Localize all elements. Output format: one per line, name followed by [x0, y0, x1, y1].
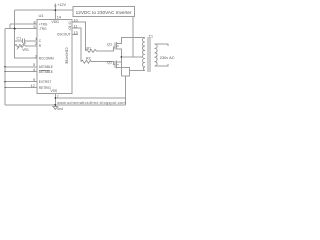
- svg-text:+12V: +12V: [57, 3, 66, 7]
- svg-text:www.schematics4free.blogspot.c: www.schematics4free.blogspot.com: [57, 100, 126, 105]
- svg-text:T1: T1: [149, 34, 153, 38]
- svg-text:RCCOMM: RCCOMM: [39, 56, 54, 60]
- svg-text:10: 10: [74, 18, 78, 22]
- svg-text:VDD: VDD: [51, 20, 59, 24]
- svg-text:Q1: Q1: [107, 43, 112, 47]
- svg-text:VR1: VR1: [22, 48, 29, 52]
- svg-text:Q2: Q2: [107, 60, 112, 64]
- svg-text:VSS: VSS: [50, 89, 58, 93]
- svg-text:11: 11: [74, 25, 78, 29]
- svg-text:ASTABLE: ASTABLE: [39, 65, 53, 69]
- svg-text:5: 5: [33, 63, 35, 67]
- svg-text:7: 7: [57, 95, 59, 99]
- svg-text:R1: R1: [87, 47, 92, 51]
- svg-text:230v AC: 230v AC: [160, 55, 175, 60]
- svg-text:9: 9: [33, 78, 35, 82]
- svg-text:Gnd: Gnd: [57, 107, 63, 111]
- svg-text:-TRG: -TRG: [39, 27, 47, 31]
- svg-text:C1: C1: [17, 37, 22, 41]
- svg-text:R2: R2: [86, 56, 91, 60]
- svg-text:2: 2: [35, 42, 37, 46]
- svg-text:12: 12: [31, 84, 35, 88]
- svg-text:EXTRST: EXTRST: [39, 80, 52, 84]
- svg-text:6: 6: [34, 25, 36, 29]
- svg-text:U1: U1: [39, 13, 45, 18]
- svg-text:12VDC to 230VAC Inverter: 12VDC to 230VAC Inverter: [76, 10, 132, 15]
- svg-text:4: 4: [33, 68, 35, 72]
- svg-text:CD4047BE: CD4047BE: [64, 48, 68, 65]
- svg-text:+TRG: +TRG: [39, 22, 48, 26]
- svg-text:RETRIG: RETRIG: [39, 86, 52, 90]
- svg-text:ASTABLE: ASTABLE: [39, 70, 53, 74]
- svg-text:14: 14: [57, 15, 61, 19]
- svg-text:13: 13: [74, 31, 78, 35]
- svg-text:8: 8: [34, 21, 36, 25]
- svg-text:1: 1: [35, 37, 37, 41]
- svg-text:OSCOUT: OSCOUT: [57, 33, 71, 37]
- svg-text:3: 3: [35, 54, 37, 58]
